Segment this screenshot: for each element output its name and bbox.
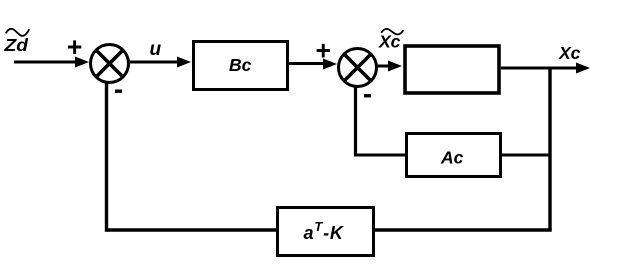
minus sign below S2 [364,94,371,97]
plant block (unlabeled) [405,46,499,93]
signal label Xc-tilde [378,29,403,52]
svg-text:Xc: Xc [558,43,581,63]
wire Ac to S2 (vertical into S2) [354,85,357,157]
block Ac [407,134,501,177]
wire Bc to summer S2 [289,59,337,70]
wire bottom feedback into S1 (horizontal) [107,228,278,231]
svg-text:Bc: Bc [229,55,252,75]
wire Ac to S2 (horizontal) [355,154,406,157]
input label Zd with tilde [3,29,29,55]
svg-text:u: u [150,39,162,60]
wire bottom feedback from output branch [375,228,552,231]
block Bc [194,42,288,90]
wire bottom feedback into S1 (vertical) [105,82,108,232]
output wire [501,63,590,74]
minus sign below S1 [115,90,122,93]
wire S2 to plant block [376,61,402,72]
svg-text:Ac: Ac [440,148,464,168]
svg-text:Zd: Zd [3,35,28,55]
summing junction S2 [339,49,377,87]
wire branch into Ac [502,154,550,157]
svg-text:aT-K: aT-K [304,219,345,243]
summing junction S1 [91,45,129,83]
wire: input arrow into summer S1 [14,57,89,68]
svg-text:+: + [316,35,331,65]
block aT-K [278,208,374,256]
svg-text:+: + [67,32,82,62]
wire S1 to Bc [129,57,191,68]
node: output branch vertical [548,68,551,230]
